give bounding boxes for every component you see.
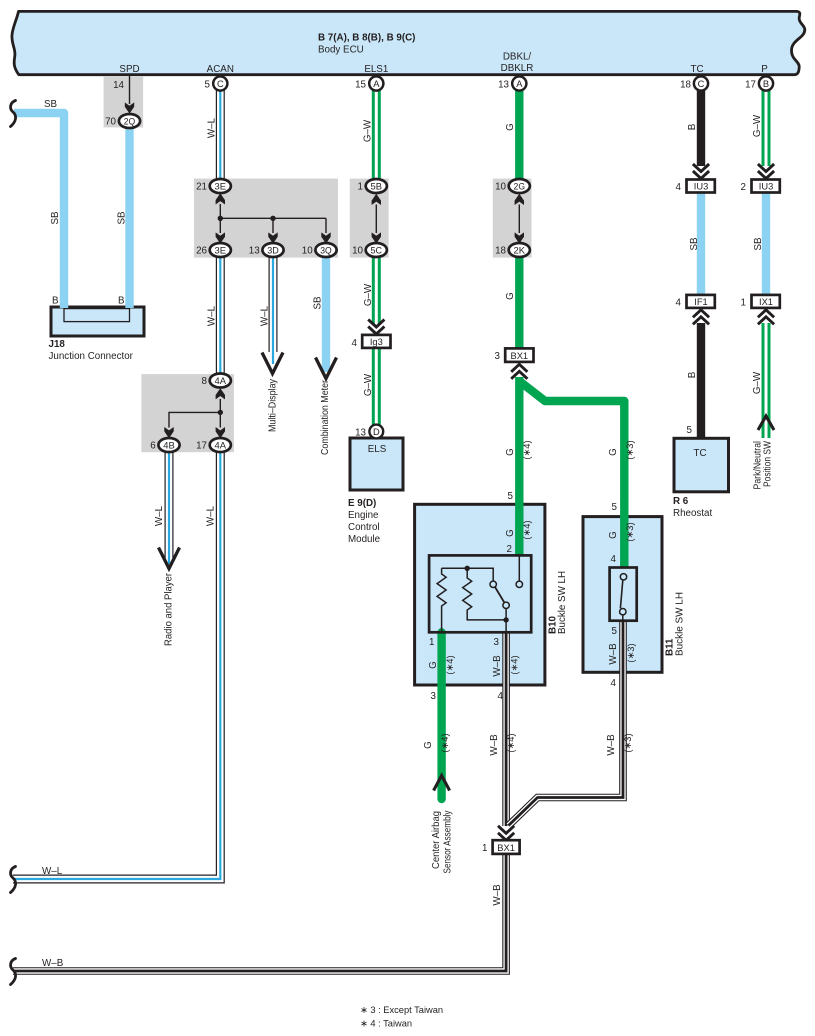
svg-text:(∗4): (∗4)	[445, 655, 455, 674]
wire G-W 5C to Ig3	[372, 257, 381, 324]
svg-text:SB: SB	[313, 296, 324, 310]
svg-text:B 7(A), B 8(B), B 9(C): B 7(A), B 8(B), B 9(C)	[318, 33, 415, 44]
svg-text:W–B: W–B	[492, 884, 503, 906]
break squiggle SB	[11, 101, 16, 127]
resistor R left	[437, 568, 446, 632]
R6 rheostat box	[674, 438, 729, 492]
arrow down into 2Q	[125, 102, 134, 113]
svg-text:(∗3): (∗3)	[625, 440, 635, 459]
svg-text:(∗3): (∗3)	[625, 522, 635, 541]
Park/Neutral entry arrow	[758, 416, 774, 430]
svg-text:2: 2	[507, 544, 512, 555]
svg-text:W–L: W–L	[154, 505, 165, 526]
svg-text:18: 18	[495, 246, 506, 257]
svg-text:W–B: W–B	[489, 734, 500, 756]
connector oval 8 4A	[210, 374, 231, 388]
gray junction block SPD (2Q)	[104, 77, 144, 128]
svg-text:Rheostat: Rheostat	[673, 508, 712, 519]
junction bus line	[220, 217, 326, 219]
Multi-Display exit arrow	[262, 353, 283, 374]
wire SB IU3 to IX1	[762, 193, 770, 295]
svg-text:10: 10	[495, 182, 506, 193]
Combination Meter exit arrow	[316, 358, 337, 379]
connector rect 4 Ig3	[362, 335, 390, 348]
svg-text:2K: 2K	[514, 246, 526, 256]
4A/4B arrows and lines	[164, 388, 225, 438]
connector oval 10 3Q	[315, 243, 336, 257]
svg-text:G: G	[428, 661, 439, 669]
svg-text:4B: 4B	[163, 441, 175, 451]
svg-text:4: 4	[611, 554, 617, 565]
B10 inner wiring: pin2 lead	[518, 555, 520, 580]
svg-text:B: B	[687, 123, 698, 130]
svg-text:G: G	[505, 292, 516, 300]
wire W-L 3E to 4A	[216, 257, 225, 375]
svg-text:Ig3: Ig3	[370, 337, 383, 347]
svg-text:SB: SB	[44, 99, 58, 110]
connector rect 4 IF1	[687, 295, 715, 308]
connector oval 13 3D	[262, 243, 283, 257]
B11 buckle SW box	[583, 517, 662, 673]
svg-text:C: C	[217, 79, 224, 89]
svg-text:5B: 5B	[371, 182, 383, 192]
svg-text:Buckle SW LH: Buckle SW LH	[557, 571, 568, 634]
svg-text:(∗4): (∗4)	[440, 733, 450, 752]
svg-text:Radio and Player: Radio and Player	[164, 572, 175, 646]
gray junction block 2G/2K	[493, 179, 532, 258]
svg-text:Engine Control Module: Engine Control Module	[348, 505, 384, 545]
resistor R right	[463, 568, 506, 620]
svg-text:4: 4	[498, 691, 504, 702]
svg-text:17: 17	[196, 441, 207, 452]
wire G-W Ig3 to ELS pin D	[372, 348, 381, 425]
svg-text:G: G	[608, 531, 619, 539]
svg-text:∗ 3 : Except Taiwan: ∗ 3 : Except Taiwan	[360, 1005, 443, 1015]
chevrons into IU3 left	[693, 164, 709, 179]
drop to 13-3D	[272, 218, 274, 233]
svg-text:G: G	[608, 448, 619, 456]
svg-text:SPD: SPD	[119, 64, 139, 75]
svg-text:(∗4): (∗4)	[506, 733, 516, 752]
connector oval 21 3E	[210, 179, 231, 193]
wire SB 3Q to Combination Meter	[322, 257, 330, 372]
svg-text:W–L: W–L	[207, 117, 218, 138]
svg-text:BX1: BX1	[497, 843, 515, 853]
connector oval 1 5B	[366, 179, 387, 193]
wire G-W P pin B to IU3	[762, 90, 771, 166]
svg-text:G–W: G–W	[752, 114, 763, 137]
connector oval 6 4B	[158, 438, 179, 452]
connector oval 10 2G	[509, 179, 530, 193]
svg-text:4: 4	[676, 182, 682, 193]
svg-text:TC: TC	[693, 448, 706, 459]
svg-text:18: 18	[680, 80, 691, 91]
wire SB from break to J18 left pin	[14, 113, 64, 308]
svg-text:G–W: G–W	[363, 119, 374, 142]
svg-text:W–B: W–B	[42, 958, 64, 969]
svg-text:B: B	[687, 371, 698, 378]
connector rect 4 IU3	[687, 180, 715, 193]
svg-text:1: 1	[358, 182, 363, 193]
wire W-L 4B to Radio and Player	[165, 452, 174, 564]
B10 top bus	[442, 568, 494, 581]
svg-text:IU3: IU3	[759, 182, 773, 192]
svg-text:C: C	[698, 79, 705, 89]
svg-text:ELS: ELS	[368, 444, 387, 455]
svg-text:Center Airbag: Center Airbag	[431, 811, 442, 869]
pin 13 circle A DBKL	[512, 76, 526, 90]
svg-text:W–L: W–L	[260, 305, 271, 326]
svg-text:G: G	[505, 448, 516, 456]
svg-text:8: 8	[202, 376, 208, 387]
svg-text:IU3: IU3	[694, 182, 708, 192]
svg-text:DBKLR: DBKLR	[501, 63, 534, 74]
svg-text:15: 15	[355, 80, 366, 91]
wire G 2K to BX1	[515, 257, 523, 348]
svg-text:13: 13	[249, 246, 260, 257]
svg-text:(∗3): (∗3)	[626, 643, 636, 662]
svg-text:13: 13	[498, 80, 509, 91]
svg-text:W–B: W–B	[606, 734, 617, 756]
2G/2K arrows and line	[515, 194, 524, 244]
svg-text:(∗4): (∗4)	[522, 520, 532, 539]
J18 junction connector box	[51, 307, 144, 336]
svg-text:2: 2	[741, 182, 746, 193]
svg-text:Buckle SW LH: Buckle SW LH	[675, 592, 686, 656]
svg-text:21: 21	[196, 182, 207, 193]
wire G branch to B11	[519, 381, 624, 568]
svg-text:4A: 4A	[215, 376, 227, 386]
chevrons into IU3 right	[758, 164, 774, 179]
svg-text:BX1: BX1	[511, 351, 529, 361]
svg-text:W–L: W–L	[42, 866, 63, 877]
svg-text:10: 10	[302, 246, 313, 257]
svg-text:70: 70	[105, 117, 116, 128]
svg-text:14: 14	[113, 80, 124, 91]
body ECU bar B7/B8/B9	[12, 11, 805, 74]
svg-text:W–B: W–B	[492, 655, 503, 677]
gray junction block 5B/5C	[350, 179, 389, 258]
svg-text:(∗4): (∗4)	[522, 440, 532, 459]
svg-text:4: 4	[611, 678, 617, 689]
wire W-B BX1 to left break	[13, 854, 506, 971]
svg-text:2G: 2G	[514, 182, 526, 192]
connector oval 17 4A	[210, 438, 231, 452]
connector oval 26 3E	[210, 243, 231, 257]
svg-text:5: 5	[687, 425, 693, 436]
svg-text:∗ 4 : Taiwan: ∗ 4 : Taiwan	[360, 1019, 412, 1029]
gray junction block 3E/3D/3Q	[194, 179, 338, 258]
B10 buckle SW box	[415, 504, 545, 685]
svg-text:G: G	[423, 741, 434, 749]
chevrons up below BX1	[511, 364, 527, 379]
svg-text:A: A	[373, 79, 380, 89]
svg-text:3: 3	[494, 637, 500, 648]
connector rect 2 IU3	[752, 180, 780, 193]
svg-text:G: G	[505, 529, 516, 537]
pin 5 circle C ACAN	[213, 76, 227, 90]
chevrons up below IX1	[758, 310, 774, 325]
chevrons into BX1 bottom	[498, 826, 514, 841]
junction block ovals 3E top	[216, 193, 225, 218]
svg-text:W–L: W–L	[206, 505, 217, 526]
svg-text:3E: 3E	[215, 246, 227, 256]
Radio and Player exit arrow	[159, 548, 180, 569]
wire G BX1 to B10 pin 2	[515, 377, 523, 555]
svg-text:B: B	[763, 79, 769, 89]
svg-text:26: 26	[196, 246, 207, 257]
svg-text:5: 5	[205, 80, 211, 91]
svg-text:3: 3	[495, 351, 501, 362]
svg-text:3: 3	[431, 691, 437, 702]
pin 13 circle D ELS	[369, 425, 383, 439]
Center Airbag entry arrow	[434, 776, 450, 791]
svg-text:1: 1	[429, 637, 434, 648]
break squiggle W-L	[11, 867, 16, 893]
svg-text:4: 4	[352, 338, 358, 349]
wire SB IU3 to IF1	[697, 193, 705, 295]
svg-text:4A: 4A	[215, 441, 227, 451]
gray junction block 4A/4B	[141, 374, 234, 452]
connector rect 1 BX1	[493, 840, 520, 854]
svg-text:Combination Meter: Combination Meter	[320, 379, 331, 455]
svg-text:R 6: R 6	[673, 496, 689, 507]
svg-text:1: 1	[741, 298, 746, 309]
wire SB 2Q to J18 right pin	[125, 127, 133, 308]
chevrons up below IF1	[693, 310, 709, 325]
svg-text:B: B	[118, 296, 125, 307]
svg-text:Position SW: Position SW	[763, 440, 774, 487]
svg-text:Body ECU: Body ECU	[318, 45, 364, 56]
ELS box E9(D)	[350, 438, 403, 490]
drop to 10-3Q	[325, 218, 327, 233]
svg-text:3D: 3D	[267, 246, 279, 256]
svg-text:10: 10	[352, 246, 363, 257]
svg-text:3E: 3E	[215, 182, 227, 192]
svg-text:B: B	[52, 296, 59, 307]
svg-text:TC: TC	[690, 64, 703, 75]
svg-text:5: 5	[508, 491, 514, 502]
B11 inner switch box	[610, 568, 637, 621]
svg-text:17: 17	[745, 80, 756, 91]
pin 15 circle A ELS1	[369, 76, 383, 90]
svg-text:IX1: IX1	[759, 297, 773, 307]
drop to 26-3E	[219, 218, 221, 233]
svg-text:6: 6	[150, 441, 156, 452]
svg-text:Multi–Display: Multi–Display	[268, 379, 279, 432]
B10 inner switch box	[429, 555, 531, 632]
wire W-B B10 pin3 to BX1	[502, 632, 510, 826]
svg-text:(∗4): (∗4)	[510, 655, 520, 674]
svg-text:Sensor Assembly: Sensor Assembly	[443, 810, 454, 873]
connector rect 1 IX1	[752, 295, 780, 308]
svg-text:5C: 5C	[371, 246, 383, 256]
svg-text:J18: J18	[49, 339, 66, 350]
svg-text:G–W: G–W	[363, 283, 374, 306]
svg-text:13: 13	[355, 428, 366, 439]
connector oval 2Q	[119, 114, 140, 128]
svg-text:SB: SB	[50, 211, 61, 225]
svg-text:G–W: G–W	[752, 371, 763, 394]
connector oval 10 5C	[366, 243, 387, 257]
svg-text:ACAN: ACAN	[207, 64, 234, 75]
svg-text:G–W: G–W	[363, 373, 374, 396]
svg-text:SB: SB	[689, 237, 700, 251]
pin 18 circle C TC	[694, 76, 708, 90]
B11 switch	[620, 574, 626, 580]
svg-text:SB: SB	[117, 211, 128, 225]
connector oval 18 2K	[509, 243, 530, 257]
wire W-L 4A to left break	[13, 452, 220, 879]
wire G DBKL pin A to 2G	[515, 90, 523, 179]
svg-text:5: 5	[612, 626, 618, 637]
wire W-B B11 to BX1 junction	[509, 621, 624, 826]
wire B TC pin C to IU3	[697, 90, 705, 166]
wire W-L 3D to Multi-Display	[269, 257, 278, 364]
pin 14 SPD lead	[129, 76, 131, 104]
svg-text:SB: SB	[753, 237, 764, 251]
svg-text:(∗3): (∗3)	[623, 733, 633, 752]
svg-text:Junction Connector: Junction Connector	[49, 351, 134, 362]
wire G-W IX1 to Park/Neutral SW	[762, 323, 771, 438]
chevrons into Ig3	[368, 320, 384, 335]
svg-text:W–B: W–B	[608, 643, 619, 665]
svg-text:1: 1	[482, 843, 487, 854]
svg-text:ELS1: ELS1	[364, 64, 388, 75]
wire B IF1 to R6	[697, 323, 705, 438]
svg-text:W–L: W–L	[207, 305, 218, 326]
svg-text:4: 4	[676, 298, 682, 309]
svg-text:A: A	[516, 79, 523, 89]
5B/5C arrows and line	[372, 194, 381, 244]
connector rect 3 BX1	[505, 348, 533, 362]
svg-text:D: D	[373, 427, 380, 437]
svg-text:IF1: IF1	[694, 297, 707, 307]
B10 switch arm	[495, 587, 504, 603]
svg-text:E 9(D): E 9(D)	[348, 498, 376, 509]
break squiggle W-B	[11, 959, 16, 985]
svg-text:G: G	[505, 123, 516, 131]
wire G B10 pin1 to Center Airbag arrow	[437, 632, 445, 799]
svg-text:P: P	[761, 64, 768, 75]
svg-text:DBKL/: DBKL/	[503, 52, 532, 63]
svg-text:3Q: 3Q	[320, 246, 332, 256]
wire G-W ELS1 pin A to 5B	[372, 90, 381, 179]
svg-text:2Q: 2Q	[124, 117, 136, 127]
svg-text:5: 5	[612, 502, 618, 513]
pin 17 circle B P	[759, 76, 773, 90]
wire W-L ACAN pin C to 3E	[216, 90, 225, 179]
